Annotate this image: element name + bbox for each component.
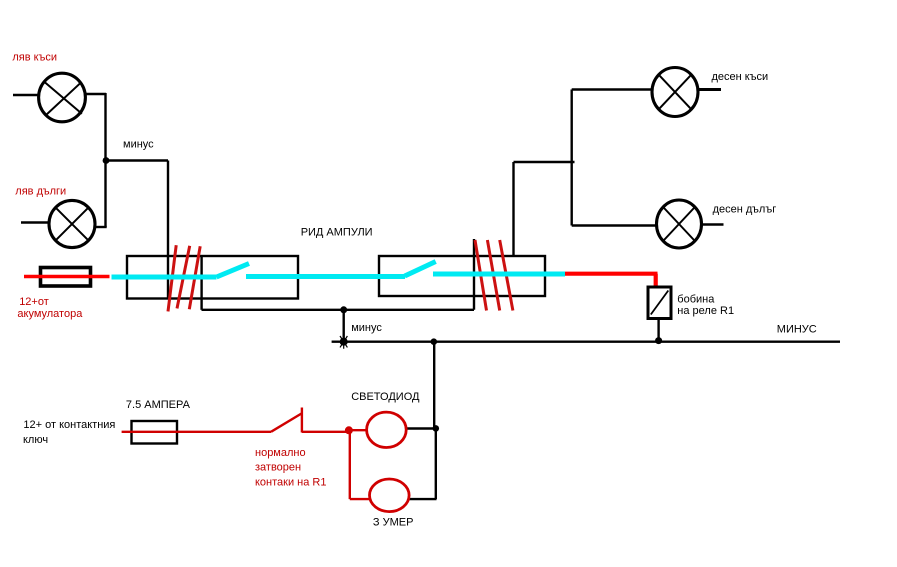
svg-text:ляв дълги: ляв дълги bbox=[15, 186, 66, 198]
svg-text:12+от: 12+от bbox=[19, 296, 49, 308]
svg-text:акумулатора: акумулатора bbox=[17, 308, 83, 320]
svg-text:РИД АМПУЛИ: РИД АМПУЛИ bbox=[301, 227, 373, 239]
svg-text:десен дълъг: десен дълъг bbox=[713, 203, 777, 215]
svg-text:затворен: затворен bbox=[255, 461, 301, 473]
svg-text:нормално: нормално bbox=[255, 447, 306, 459]
svg-text:ключ: ключ bbox=[23, 434, 48, 446]
svg-text:7.5 АМПЕРА: 7.5 АМПЕРА bbox=[126, 399, 191, 411]
svg-text:минус: минус bbox=[351, 322, 382, 334]
svg-text:12+ от контактния: 12+ от контактния bbox=[23, 419, 115, 431]
svg-text:минус: минус bbox=[123, 139, 154, 151]
svg-text:контаки на R1: контаки на R1 bbox=[255, 477, 326, 489]
svg-text:ляв къси: ляв къси bbox=[12, 51, 57, 63]
svg-text:МИНУС: МИНУС bbox=[777, 324, 817, 336]
svg-text:бобина: бобина bbox=[677, 293, 715, 305]
svg-text:на реле R1: на реле R1 bbox=[677, 305, 734, 317]
svg-text:З УМЕР: З УМЕР bbox=[373, 516, 414, 528]
svg-text:десен къси: десен къси bbox=[712, 71, 769, 83]
svg-text:СВЕТОДИОД: СВЕТОДИОД bbox=[351, 391, 420, 403]
